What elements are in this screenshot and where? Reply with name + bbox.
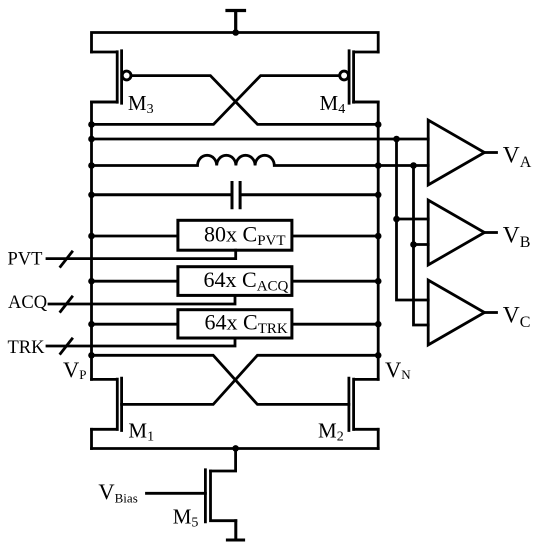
wire: VBias to M5 gate	[147, 492, 206, 495]
transistor M2 (NMOS)	[349, 378, 378, 430]
svg-text:VB: VB	[503, 223, 531, 252]
wire: M2 source to tail rail	[377, 429, 380, 448]
svg-text:M5: M5	[173, 505, 199, 531]
ACQ control line	[49, 295, 235, 304]
wire: VP tap row to buffer A upper input	[92, 138, 429, 141]
wire: bus1 tap to buffer B upper input	[397, 218, 429, 221]
wire: bus1 VP to buffer C upper input	[397, 139, 429, 300]
capacitor bank C_TRK	[92, 323, 379, 326]
node: dot left rail nmos cross	[88, 352, 95, 359]
ground	[227, 521, 243, 540]
wire: left rail VP	[92, 102, 118, 379]
wire: bus2 tap to buffer B lower input	[414, 243, 429, 246]
node: dot VN tap bus2	[410, 162, 417, 169]
svg-text:M3: M3	[128, 91, 154, 117]
svg-text:M1: M1	[128, 419, 154, 445]
node: dot CACQ right rail	[375, 278, 382, 285]
svg-text:M4: M4	[320, 91, 346, 117]
wire: buffer A output	[485, 151, 497, 154]
transistor M4 (PMOS)	[349, 51, 378, 103]
node: dot bus2 buffer B	[410, 241, 417, 248]
transistor M5 (NMOS tail)	[205, 470, 235, 522]
wire: top supply rail	[92, 33, 379, 53]
node: dot left rail cross	[88, 121, 95, 128]
inductor L tank	[92, 155, 429, 165]
node: dot cap left rail	[88, 192, 95, 199]
buffer amplifier C	[428, 280, 484, 345]
TRK control line	[47, 338, 235, 346]
TRK bus slash	[61, 339, 73, 354]
svg-text:TRK: TRK	[8, 338, 46, 358]
svg-text:VBias: VBias	[98, 479, 137, 505]
wire: bus2 VN to buffer C lower input	[414, 166, 429, 326]
svg-text:PVT: PVT	[8, 250, 43, 270]
node: dot CPVT left rail	[88, 233, 95, 240]
PVT bus slash	[61, 252, 73, 267]
node: dot CACQ left rail	[88, 278, 95, 285]
node: dot inductor left rail	[88, 162, 95, 169]
wire: buffer C output	[485, 311, 497, 314]
wire: M3 gate to right rail (cross-couple)	[131, 76, 378, 125]
node: dot inductor right rail	[375, 162, 382, 169]
svg-text:M2: M2	[318, 419, 344, 445]
wire: M1 gate to right rail (cross-couple)	[122, 355, 379, 404]
svg-text:VA: VA	[503, 143, 532, 172]
wire: bottom tail rail	[92, 447, 379, 450]
wire: M2 gate to left rail (cross-couple)	[92, 355, 349, 404]
svg-text:VC: VC	[503, 303, 531, 332]
ACQ bus slash	[61, 297, 73, 312]
transistor M3 (PMOS)	[92, 51, 122, 103]
node: VDD junction dot	[232, 29, 239, 36]
buffer amplifier A	[428, 120, 484, 185]
wire: buffer B output	[485, 231, 497, 234]
svg-text:VN: VN	[385, 357, 411, 382]
node: tail junction dot	[232, 445, 239, 452]
node: dot right rail nmos cross	[375, 352, 382, 359]
transistor M1 (NMOS)	[92, 378, 122, 430]
capacitor bank C_PVT	[92, 235, 379, 238]
node: dot cap right rail	[375, 192, 382, 199]
capacitor C tank	[92, 183, 379, 208]
wire: M1 source to tail rail	[90, 429, 93, 448]
node: dot right rail cross	[375, 121, 382, 128]
buffer amplifier B	[428, 200, 484, 265]
PVT control line	[47, 250, 236, 258]
node: dot CPVT right rail	[375, 233, 382, 240]
capacitor bank C_ACQ	[92, 280, 379, 283]
wire: M4 gate to left rail (cross-couple)	[92, 76, 339, 125]
node: dot VP tap left rail	[88, 136, 95, 143]
node: dot CTRK left rail	[88, 321, 95, 328]
wire: right rail VN	[354, 102, 379, 379]
node: dot CTRK right rail	[375, 321, 382, 328]
svg-text:ACQ: ACQ	[8, 293, 48, 313]
svg-text:VP: VP	[63, 357, 86, 382]
supply VDD T symbol	[227, 11, 245, 33]
wire: tail to M5 drain	[211, 449, 236, 472]
node: dot bus1 buffer B	[393, 216, 400, 223]
node: dot VP tap bus1	[393, 136, 400, 143]
